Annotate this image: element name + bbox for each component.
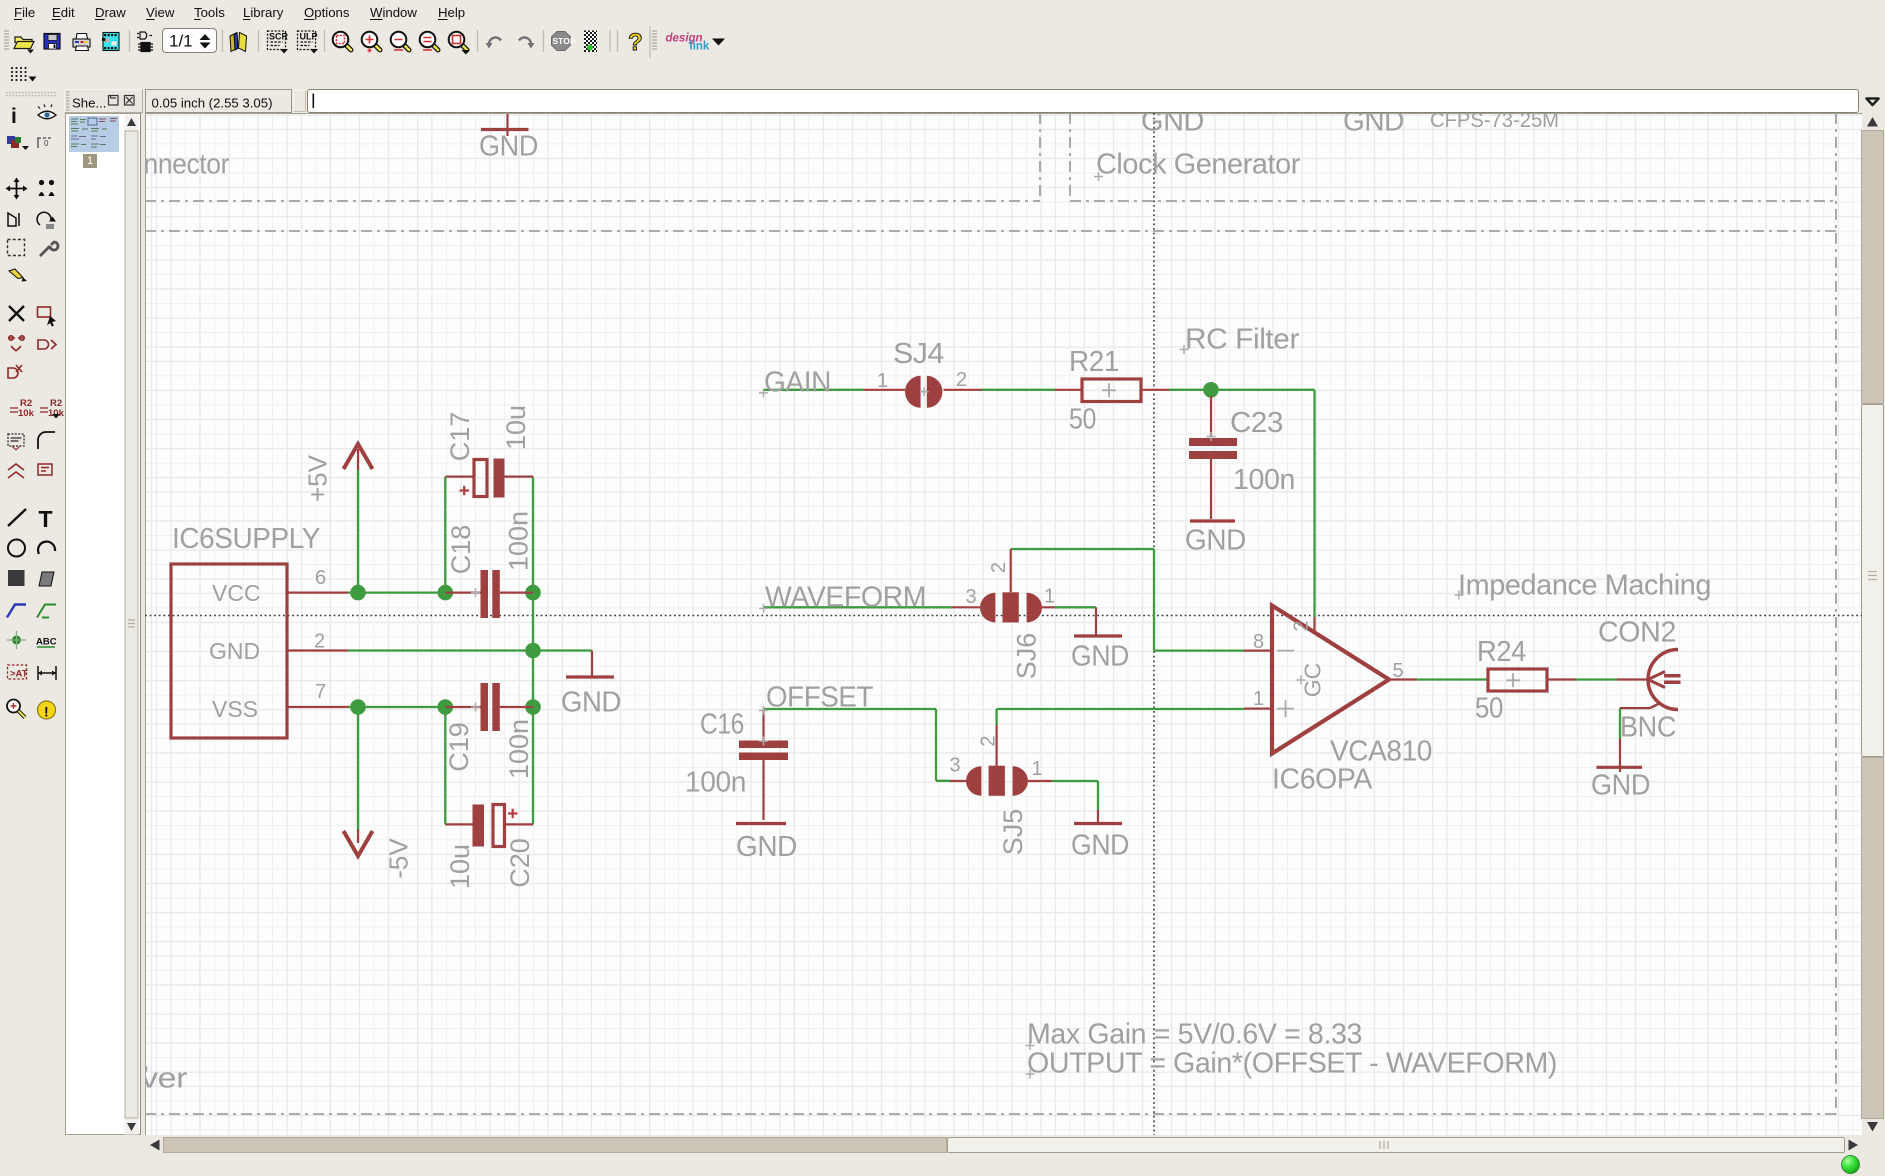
svg-text:ULP: ULP [300, 32, 318, 42]
svg-text:She...: She... [72, 96, 106, 111]
svg-text:STOP: STOP [553, 36, 576, 46]
svg-text:0.05 inch (2.55 3.05): 0.05 inch (2.55 3.05) [152, 96, 273, 111]
svg-text:link: link [690, 41, 710, 53]
svg-text:ABC: ABC [36, 637, 57, 648]
svg-text:T: T [39, 506, 53, 532]
svg-text:?: ? [628, 29, 643, 56]
svg-text:!: ! [44, 704, 49, 720]
svg-text:SCR: SCR [269, 32, 289, 42]
svg-text:1/1: 1/1 [169, 32, 193, 51]
svg-text:>AT: >AT [10, 669, 28, 680]
svg-text:i: i [11, 105, 17, 128]
svg-text:0: 0 [44, 139, 49, 148]
svg-text:10k: 10k [18, 408, 35, 419]
